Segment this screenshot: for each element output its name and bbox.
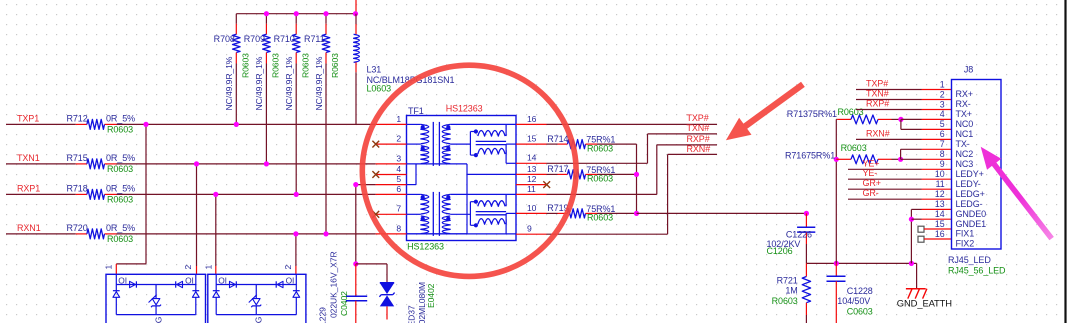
- svg-text:2: 2: [283, 265, 293, 270]
- junction: [234, 122, 239, 127]
- pin 11 TF1: [516, 193, 547, 195]
- wire: [265, 64, 267, 164]
- svg-text:RJ45_LED: RJ45_LED: [948, 255, 991, 265]
- wire TXP1 to D-array: [145, 124, 147, 264]
- svg-text:RXN#: RXN#: [866, 128, 890, 138]
- svg-text:8: 8: [396, 223, 401, 233]
- junction: [194, 161, 199, 166]
- svg-text:R709: R709: [244, 34, 265, 44]
- diode array U? (ESD #1): [106, 274, 206, 323]
- svg-text:J8: J8: [964, 65, 973, 75]
- wire RXP#: [547, 193, 657, 195]
- svg-text:FIX1: FIX1: [956, 229, 975, 239]
- svg-text:GND_EATTH: GND_EATTH: [897, 297, 952, 308]
- svg-text:11: 11: [527, 184, 536, 194]
- svg-text:16: 16: [527, 114, 537, 124]
- svg-text:5: 5: [396, 174, 401, 184]
- inductor L31: [355, 0, 357, 14]
- wire YE-: [848, 178, 922, 180]
- junction: [293, 231, 298, 236]
- svg-text:RXN#: RXN#: [687, 144, 711, 154]
- svg-text:G: G: [153, 316, 163, 323]
- junction: [143, 122, 148, 127]
- resistor R721: [805, 263, 807, 276]
- svg-text:0R_5%: 0R_5%: [106, 223, 135, 233]
- svg-text:5: 5: [940, 119, 945, 129]
- svg-text:1: 1: [204, 265, 214, 270]
- no-connect: [372, 211, 379, 218]
- wire: [355, 72, 357, 124]
- junction: [834, 261, 839, 266]
- pin 12 TF1: [516, 184, 547, 186]
- annotation magenta arrow: [974, 141, 1059, 244]
- svg-text:R710: R710: [274, 34, 295, 44]
- svg-text:R711: R711: [304, 34, 325, 44]
- svg-text:ED37: ED37: [407, 305, 417, 323]
- junction: [353, 182, 358, 187]
- wire GNDE0: [910, 209, 912, 263]
- pin 16 TF1: [516, 123, 547, 125]
- svg-text:TXP#: TXP#: [866, 79, 888, 89]
- pin FIX2 stub: [918, 236, 924, 242]
- svg-text:RXP#: RXP#: [866, 99, 889, 109]
- svg-text:GNDE0: GNDE0: [956, 209, 987, 219]
- svg-text:R71675R%1: R71675R%1: [785, 151, 835, 161]
- svg-text:6: 6: [940, 129, 945, 139]
- svg-text:E0402: E0402: [426, 283, 436, 308]
- svg-text:0R_5%: 0R_5%: [106, 153, 135, 163]
- wire NC0: [901, 118, 922, 120]
- pin 9 TF1: [516, 233, 547, 235]
- junction: [898, 157, 903, 162]
- svg-text:8: 8: [940, 149, 945, 159]
- svg-text:NC/49.9R_1%: NC/49.9R_1%: [314, 56, 324, 110]
- svg-text:LEDG+: LEDG+: [956, 189, 985, 199]
- svg-text:1: 1: [940, 79, 945, 89]
- svg-text:RXP#: RXP#: [687, 134, 710, 144]
- svg-text:LEDY+: LEDY+: [956, 169, 984, 179]
- wire: [295, 64, 297, 195]
- svg-text:R71375R%1: R71375R%1: [787, 109, 837, 119]
- resistor R719: [547, 212, 558, 214]
- junction: [898, 117, 903, 122]
- svg-text:7: 7: [940, 139, 945, 149]
- sheet border: [1067, 0, 1079, 323]
- svg-text:1M: 1M: [785, 286, 797, 296]
- svg-text:RX+: RX+: [956, 89, 973, 99]
- wire: [235, 64, 237, 125]
- svg-text:L0603: L0603: [367, 83, 392, 93]
- svg-text:NC/49.9R_1%: NC/49.9R_1%: [254, 56, 264, 110]
- svg-text:7: 7: [396, 204, 401, 214]
- capacitor C1229: [355, 264, 357, 296]
- svg-text:OI: OI: [286, 276, 295, 286]
- svg-text:TXP#: TXP#: [687, 113, 709, 123]
- svg-text:C1229: C1229: [318, 307, 328, 323]
- svg-text:12: 12: [935, 189, 945, 199]
- wire RXP#: [856, 109, 922, 111]
- TF1 center link: [466, 164, 468, 234]
- svg-text:G: G: [253, 316, 263, 323]
- svg-text:OI: OI: [118, 276, 127, 286]
- junction: [353, 261, 358, 266]
- pin 13 TF1: [516, 173, 547, 175]
- junction: [634, 172, 639, 177]
- wire ground rail: [806, 262, 916, 264]
- svg-text:R0603: R0603: [841, 143, 867, 153]
- svg-text:2: 2: [183, 265, 193, 270]
- svg-text:RJ45_56_LED: RJ45_56_LED: [948, 265, 1006, 275]
- svg-text:R0603: R0603: [587, 213, 613, 223]
- svg-text:R715: R715: [67, 153, 88, 163]
- wire: [325, 64, 327, 234]
- svg-text:YE+: YE+: [863, 158, 880, 168]
- wire termination bus: [636, 144, 638, 213]
- TVS diode ED37: [380, 282, 394, 284]
- svg-text:OI: OI: [218, 276, 227, 286]
- svg-text:9: 9: [527, 224, 532, 234]
- connector J8: [952, 80, 1002, 250]
- wire YE+: [848, 168, 922, 170]
- svg-text:C0603: C0603: [847, 307, 873, 317]
- wire TXN#: [856, 99, 922, 101]
- svg-text:16: 16: [935, 229, 945, 239]
- svg-text:14: 14: [527, 153, 537, 163]
- svg-text:RX-: RX-: [956, 99, 971, 109]
- wire RXN1 to D-array: [295, 234, 297, 266]
- svg-text:TXP1: TXP1: [17, 114, 39, 124]
- resistor R714: [547, 143, 558, 145]
- wire TXN#: [547, 162, 648, 164]
- svg-text:R0603: R0603: [107, 124, 133, 134]
- resistor R718: [76, 193, 87, 195]
- pin 5 TF1: [376, 184, 407, 186]
- svg-text:NC/49.9R_1%: NC/49.9R_1%: [284, 56, 294, 110]
- svg-text:TX-: TX-: [956, 139, 970, 149]
- svg-text:TXN#: TXN#: [687, 123, 710, 133]
- svg-text:6: 6: [396, 184, 401, 194]
- junction: [323, 231, 328, 236]
- resistor R708: [235, 14, 237, 24]
- svg-text:TF1: TF1: [408, 106, 424, 116]
- svg-text:11: 11: [936, 179, 945, 189]
- wire TXP#: [547, 123, 718, 125]
- svg-text:15: 15: [935, 219, 945, 229]
- pin 10 TF1: [516, 212, 547, 214]
- svg-text:R718: R718: [67, 184, 88, 194]
- ground GND_EATTH: [916, 263, 918, 288]
- svg-text:9: 9: [940, 159, 945, 169]
- resistor R720: [76, 233, 87, 235]
- pin FIX1 stub: [918, 226, 924, 232]
- svg-text:13: 13: [935, 199, 945, 209]
- svg-text:R0603: R0603: [772, 296, 798, 306]
- wire NC3: [901, 158, 922, 160]
- TF1 windings bottom: [407, 193, 421, 195]
- wire RXN#: [856, 138, 922, 140]
- no-connect: [372, 141, 379, 148]
- resistor R717: [547, 173, 558, 175]
- no-connect: [543, 181, 550, 188]
- svg-text:HS12363: HS12363: [446, 103, 483, 113]
- svg-text:3: 3: [396, 153, 401, 163]
- no-connect: [372, 171, 379, 178]
- wire TXP#: [856, 89, 922, 91]
- svg-text:C1206: C1206: [767, 246, 793, 256]
- svg-text:NC/49.9R_1%: NC/49.9R_1%: [224, 56, 234, 110]
- svg-text:R0603: R0603: [587, 174, 613, 184]
- junction: [294, 192, 299, 197]
- svg-text:0R_5%: 0R_5%: [106, 184, 135, 194]
- pin 2 TF1: [376, 143, 407, 145]
- wire GR-: [848, 198, 922, 200]
- svg-text:4: 4: [940, 109, 945, 119]
- svg-text:4: 4: [396, 164, 401, 174]
- junction: [264, 161, 269, 166]
- capacitor C1226: [805, 213, 807, 227]
- svg-text:022UK_16V_X7R: 022UK_16V_X7R: [329, 251, 339, 318]
- svg-text:HS12363: HS12363: [407, 241, 444, 251]
- pin 3 TF1: [376, 163, 407, 165]
- wire TXN1 to D-array: [196, 164, 198, 266]
- wire top bus: [236, 13, 355, 15]
- svg-text:R0603: R0603: [587, 143, 613, 153]
- junction: [323, 11, 328, 16]
- wire GR+: [848, 188, 922, 190]
- svg-text:R712: R712: [67, 114, 88, 124]
- svg-text:NC3: NC3: [956, 159, 974, 169]
- annotation red circle: [362, 65, 576, 276]
- junction: [264, 11, 269, 16]
- svg-text:3: 3: [940, 99, 945, 109]
- svg-text:C0402: C0402: [339, 291, 349, 316]
- svg-text:12: 12: [527, 174, 537, 184]
- svg-text:RXN1: RXN1: [17, 223, 41, 233]
- wire R713-R716 tie: [836, 118, 837, 120]
- pin 4 TF1: [376, 174, 407, 176]
- diode array U? (ESD #2): [208, 274, 306, 323]
- svg-text:10: 10: [935, 169, 945, 179]
- svg-text:14: 14: [935, 209, 945, 219]
- junction: [294, 11, 299, 16]
- svg-text:GR-: GR-: [863, 188, 879, 198]
- svg-text:YE-: YE-: [863, 168, 878, 178]
- pin 7 TF1: [376, 213, 407, 215]
- svg-text:TXN1: TXN1: [17, 153, 40, 163]
- annotation red arrow: [720, 76, 809, 149]
- junction: [909, 217, 914, 222]
- junction: [804, 211, 809, 216]
- pin 6 TF1: [376, 193, 407, 195]
- svg-text:NC1: NC1: [956, 129, 974, 139]
- svg-text:R0603: R0603: [107, 194, 133, 204]
- wire RXP1 to D-array: [215, 194, 217, 266]
- wire RXN1: [6, 233, 76, 235]
- capacitor C1228: [835, 263, 837, 276]
- junction: [634, 211, 639, 216]
- junction: [834, 157, 839, 162]
- svg-text:L31: L31: [367, 65, 382, 75]
- junction: [213, 192, 218, 197]
- svg-text:R0603: R0603: [241, 53, 251, 78]
- resistor R712: [76, 123, 87, 125]
- wire TXP1: [6, 123, 76, 125]
- svg-text:NC2: NC2: [956, 149, 974, 159]
- pin 8 TF1: [376, 233, 407, 235]
- wire center-tap: [355, 185, 357, 264]
- svg-text:OI: OI: [185, 276, 194, 286]
- svg-text:R720: R720: [67, 223, 88, 233]
- svg-text:R0603: R0603: [107, 234, 133, 244]
- svg-text:13: 13: [527, 164, 537, 174]
- wire RXN#: [547, 233, 668, 235]
- svg-text:R0603: R0603: [107, 164, 133, 174]
- svg-text:10: 10: [527, 203, 537, 213]
- wire NC1: [900, 119, 902, 129]
- resistor R711: [325, 14, 327, 24]
- svg-text:R717: R717: [547, 164, 568, 174]
- svg-text:2: 2: [940, 89, 945, 99]
- svg-text:R0603: R0603: [300, 53, 310, 78]
- svg-text:TX+: TX+: [956, 109, 972, 119]
- svg-text:LEDG-: LEDG-: [956, 199, 983, 209]
- pin 15 TF1: [516, 143, 547, 145]
- pin 14 TF1: [516, 162, 547, 164]
- svg-text:GR+: GR+: [863, 178, 881, 188]
- wire: [356, 263, 387, 265]
- svg-text:R0603: R0603: [330, 53, 340, 78]
- svg-text:R721: R721: [777, 275, 798, 285]
- svg-text:2: 2: [396, 134, 401, 144]
- svg-text:1: 1: [104, 265, 114, 270]
- transformer TF1: [407, 116, 517, 241]
- svg-text:FIX2: FIX2: [956, 239, 975, 249]
- svg-text:0R_5%: 0R_5%: [106, 114, 135, 124]
- resistor R710: [295, 14, 297, 24]
- pin 1 TF1: [376, 123, 407, 125]
- resistor R709: [265, 14, 267, 24]
- svg-text:C1228: C1228: [847, 286, 873, 296]
- junction: [909, 261, 914, 266]
- svg-text:104/50V: 104/50V: [837, 296, 870, 306]
- svg-text:R708: R708: [214, 34, 235, 44]
- svg-text:R0603: R0603: [271, 53, 281, 78]
- svg-text:1: 1: [396, 114, 401, 124]
- svg-text:15: 15: [527, 134, 537, 144]
- svg-text:NC0: NC0: [956, 119, 974, 129]
- svg-text:R714: R714: [547, 134, 568, 144]
- wire RXP1: [6, 193, 76, 195]
- svg-text:LEDY-: LEDY-: [956, 179, 981, 189]
- svg-text:RXP1: RXP1: [17, 184, 40, 194]
- TF1 windings top: [407, 123, 421, 125]
- wire TXN1: [6, 163, 76, 165]
- resistor R715: [76, 163, 87, 165]
- wire NC2: [900, 149, 902, 159]
- svg-text:TXN#: TXN#: [866, 89, 889, 99]
- svg-text:GNDE1: GNDE1: [956, 219, 987, 229]
